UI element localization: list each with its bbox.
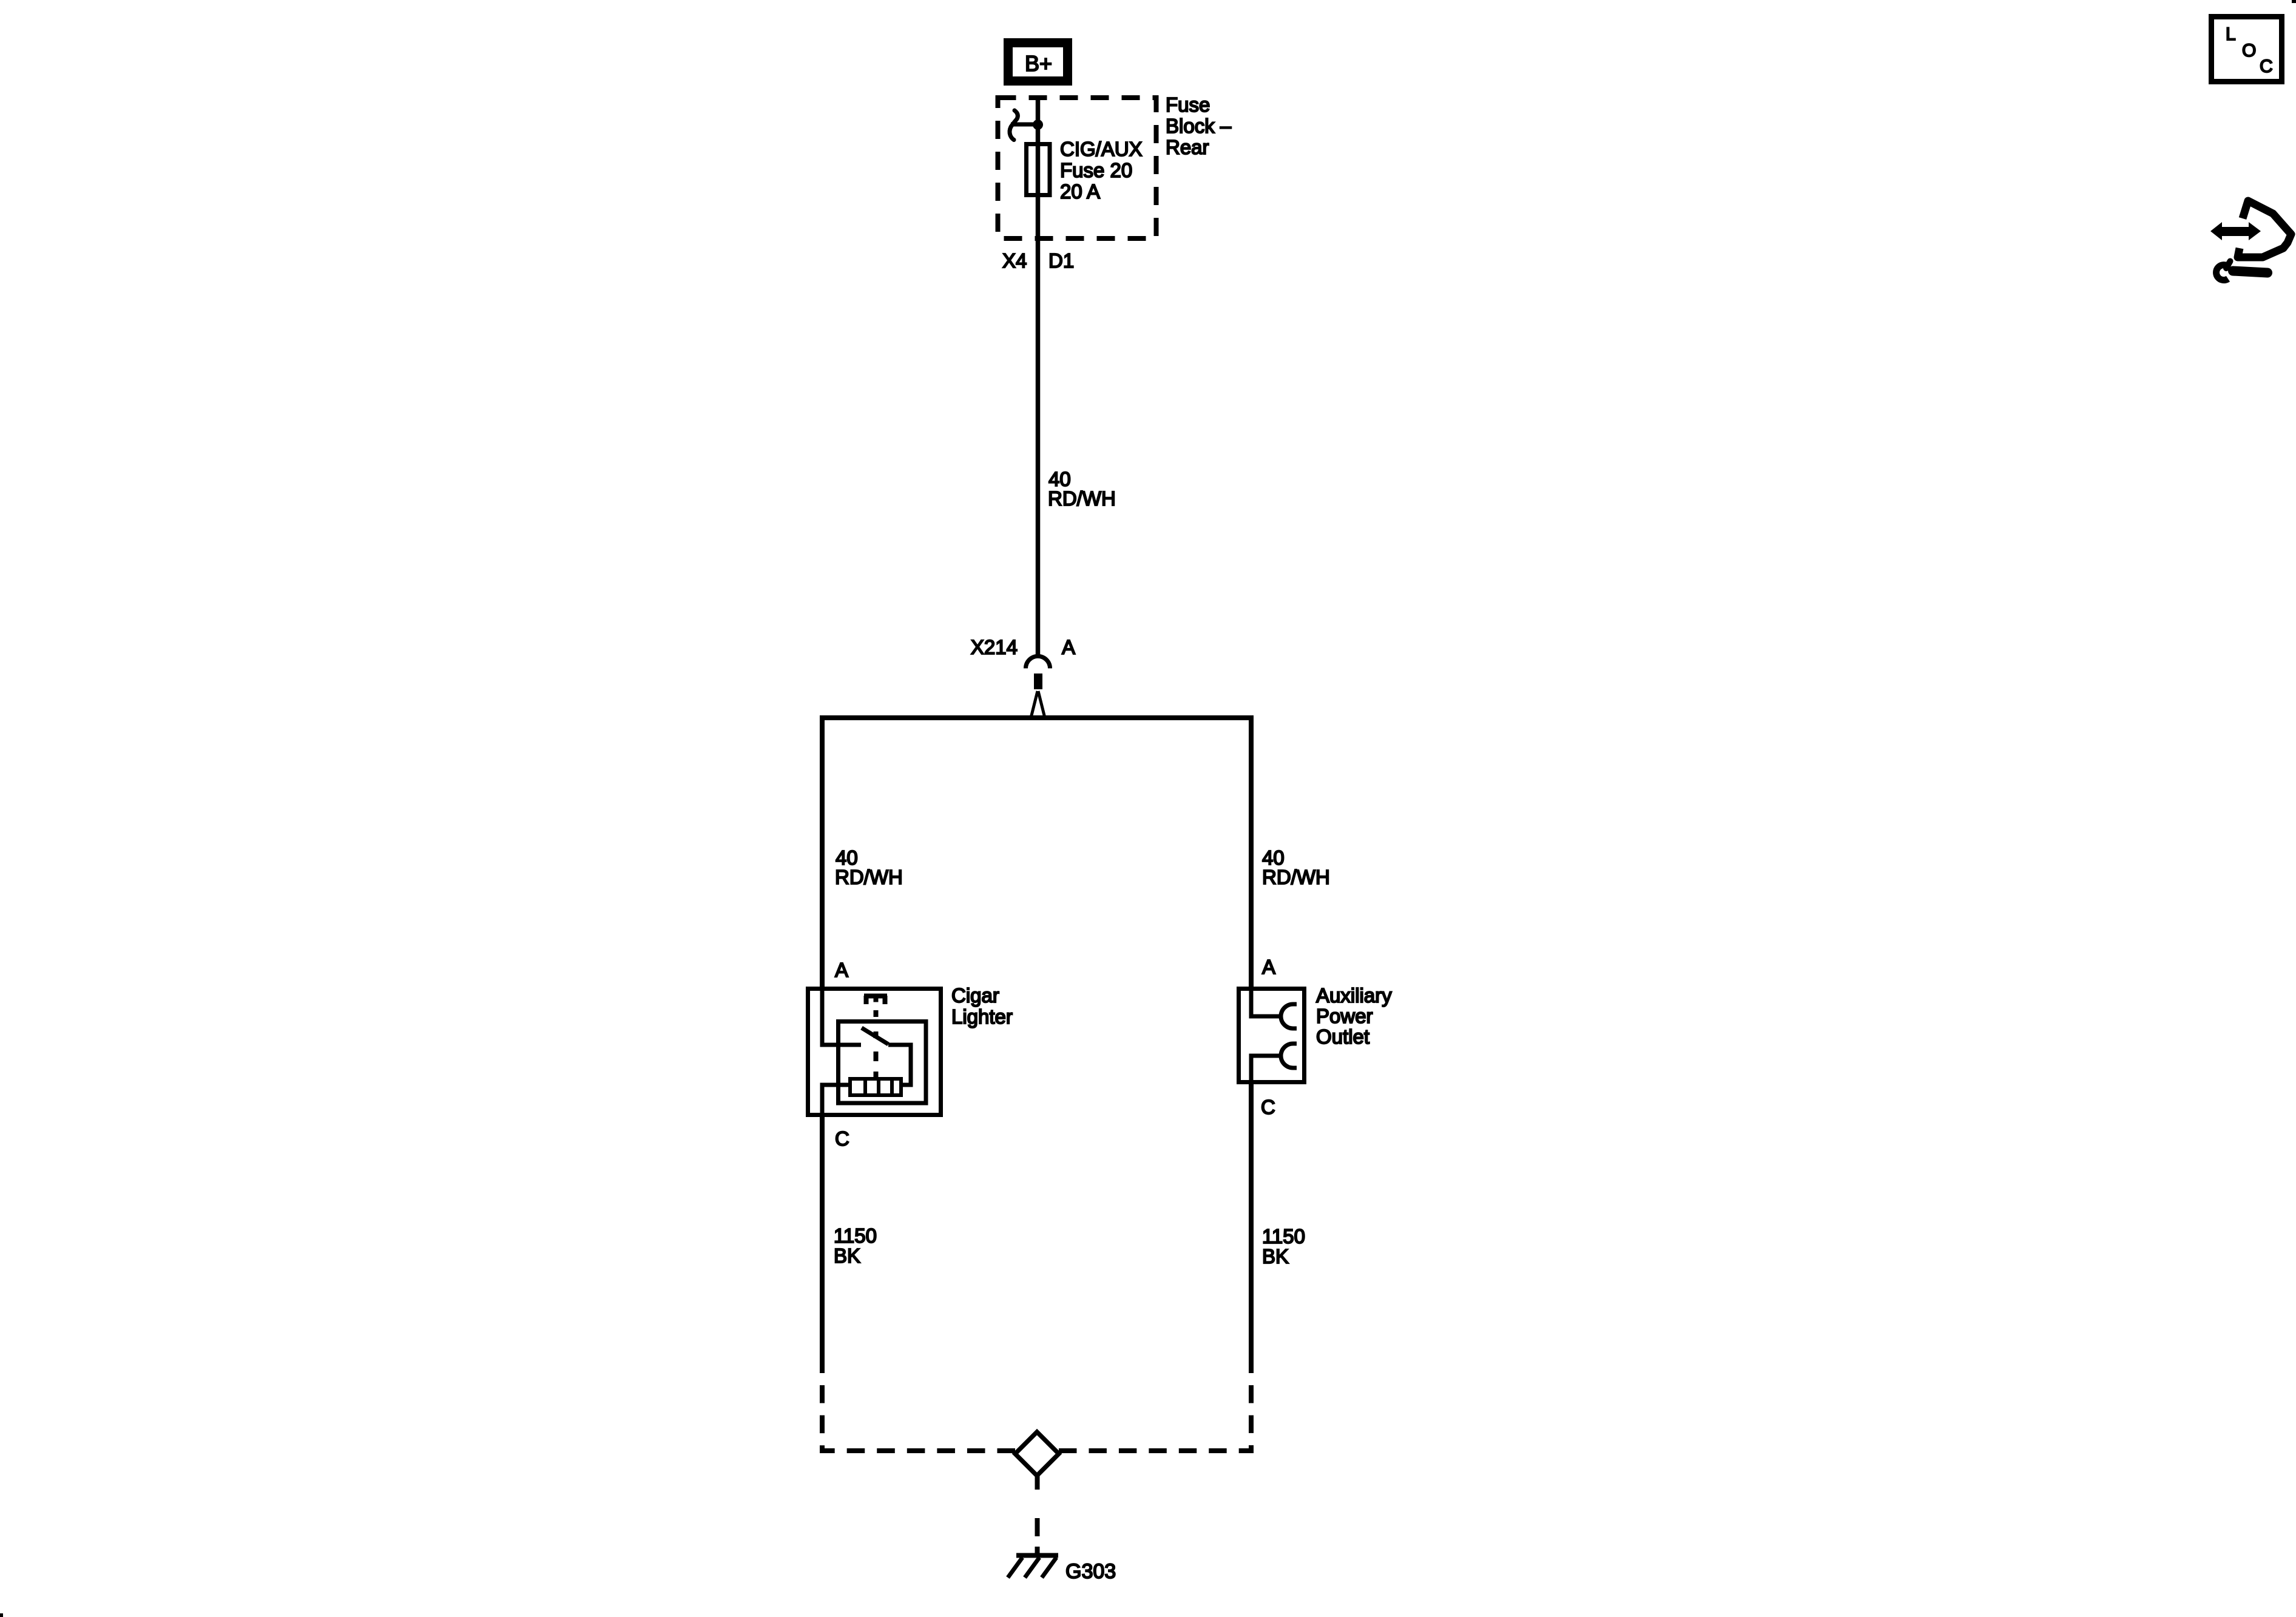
wire: right ground lead dashed to splice bbox=[1059, 1373, 1251, 1451]
svg-text:RD/WH: RD/WH bbox=[1262, 866, 1330, 888]
wire: left ground lead dashed to splice bbox=[822, 1373, 1015, 1451]
label CIG/AUX Fuse 20 20 A bbox=[1060, 138, 1143, 203]
svg-text:C: C bbox=[835, 1127, 849, 1150]
junction dot bbox=[1033, 120, 1043, 130]
svg-text:20 A: 20 A bbox=[1060, 180, 1100, 203]
connector X214 crimp legs bbox=[1031, 691, 1045, 718]
svg-text:B+: B+ bbox=[1025, 51, 1052, 76]
cigar lighter outer box bbox=[808, 989, 941, 1115]
wire: splice to ground dashed bbox=[1035, 1476, 1040, 1554]
wire label 1150 BK (left) bbox=[834, 1224, 877, 1267]
svg-text:Block –: Block – bbox=[1166, 115, 1232, 137]
svg-text:Fuse 20: Fuse 20 bbox=[1060, 159, 1132, 181]
svg-text:RD/WH: RD/WH bbox=[1048, 487, 1116, 510]
svg-text:CIG/AUX: CIG/AUX bbox=[1060, 138, 1143, 160]
cigar lighter inner box bbox=[839, 1022, 927, 1104]
svg-text:O: O bbox=[2242, 41, 2256, 61]
svg-text:BK: BK bbox=[1262, 1245, 1289, 1268]
fuse block dashed box (Fuse Block - Rear) bbox=[998, 98, 1156, 238]
scan speck top-right corner bbox=[2292, 0, 2296, 3]
wire label 40 RD/WH (main feed) bbox=[1048, 468, 1116, 510]
wire label 40 RD/WH (left branch) bbox=[835, 846, 903, 888]
svg-text:1150: 1150 bbox=[834, 1224, 877, 1247]
label Cigar Lighter bbox=[951, 984, 1013, 1028]
auxiliary power outlet box bbox=[1239, 989, 1305, 1082]
svg-text:X4: X4 bbox=[1002, 249, 1027, 272]
svg-text:Fuse: Fuse bbox=[1166, 93, 1210, 116]
splice diamond bbox=[1015, 1432, 1059, 1476]
svg-text:G303: G303 bbox=[1065, 1560, 1116, 1583]
wire: right branch down to aux power outlet bbox=[1249, 718, 1254, 987]
wire: element return to C out bbox=[822, 1085, 848, 1117]
wire label 1150 BK (right) bbox=[1262, 1225, 1305, 1268]
wire: curl tap to junction bbox=[1011, 123, 1038, 127]
label Fuse Block - Rear bbox=[1166, 93, 1232, 158]
wire: cigar lighter ground lead solid bbox=[820, 1117, 825, 1373]
cigar lighter actuator dashed line bbox=[874, 1010, 879, 1077]
service icon wrench bbox=[2217, 262, 2267, 280]
wire: cigar lighter feed A in bbox=[822, 987, 861, 1045]
svg-text:A: A bbox=[1062, 636, 1075, 658]
aux outlet upper contact bbox=[1281, 1004, 1297, 1028]
wire: left branch down to cigar lighter bbox=[820, 718, 825, 987]
svg-text:A: A bbox=[1262, 956, 1275, 978]
wire label 40 RD/WH (right branch) bbox=[1262, 846, 1330, 888]
svg-text:C: C bbox=[1261, 1096, 1275, 1118]
wire: splice bus horizontal bbox=[820, 715, 1254, 720]
bus bar curl symbol inside fuse block bbox=[1010, 110, 1018, 140]
cigar lighter heating element bbox=[850, 1077, 901, 1097]
wire: aux outlet feed stub bbox=[1251, 987, 1281, 1016]
svg-text:1150: 1150 bbox=[1262, 1225, 1305, 1247]
service icon double arrow bbox=[2210, 222, 2261, 240]
svg-text:Power: Power bbox=[1316, 1005, 1373, 1027]
svg-text:A: A bbox=[835, 959, 848, 981]
svg-text:Cigar: Cigar bbox=[951, 984, 999, 1007]
LOC reference box bbox=[2212, 17, 2282, 82]
service icon pointer outline bbox=[2238, 201, 2291, 257]
svg-text:Outlet: Outlet bbox=[1316, 1025, 1369, 1048]
battery feed B+ box bbox=[1004, 38, 1072, 86]
ground G303 symbol bbox=[1008, 1556, 1058, 1578]
svg-text:Rear: Rear bbox=[1166, 136, 1209, 158]
connector X214 female half-circle bbox=[1026, 657, 1050, 669]
scan speck bottom-left corner bbox=[0, 1613, 3, 1617]
svg-text:X214: X214 bbox=[971, 636, 1018, 658]
svg-text:C: C bbox=[2260, 56, 2273, 76]
wire: aux outlet return stub bbox=[1251, 1056, 1281, 1084]
svg-text:D1: D1 bbox=[1048, 249, 1074, 272]
wire: B+ feed down through fuse to connector X214 bbox=[1036, 96, 1041, 655]
wire: switch to heating element bbox=[888, 1045, 911, 1085]
aux outlet lower contact bbox=[1281, 1044, 1297, 1068]
cigar lighter switch blade bbox=[862, 1028, 888, 1044]
connector X214 male terminal bbox=[1034, 673, 1042, 689]
svg-text:RD/WH: RD/WH bbox=[835, 866, 903, 888]
cigar lighter socket top contact bbox=[864, 996, 887, 1004]
svg-text:L: L bbox=[2226, 24, 2236, 44]
label Auxiliary Power Outlet bbox=[1316, 984, 1392, 1048]
svg-text:BK: BK bbox=[834, 1244, 860, 1267]
wire: aux outlet ground lead solid bbox=[1249, 1084, 1254, 1373]
svg-text:Auxiliary: Auxiliary bbox=[1316, 984, 1392, 1007]
svg-text:Lighter: Lighter bbox=[951, 1005, 1013, 1028]
fuse CIG/AUX Fuse 20 20A bbox=[1027, 144, 1050, 195]
